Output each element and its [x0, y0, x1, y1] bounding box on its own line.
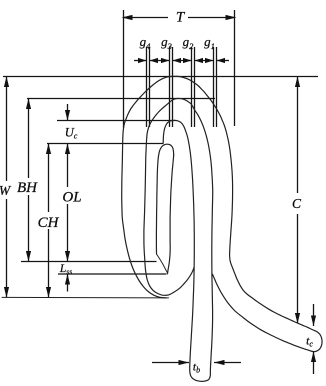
- svg-text:W: W: [0, 183, 12, 198]
- svg-text:T: T: [176, 10, 186, 26]
- svg-text:g3: g3: [161, 34, 172, 51]
- svg-text:BH: BH: [17, 180, 38, 196]
- svg-text:g1: g1: [204, 34, 215, 51]
- svg-text:CH: CH: [38, 215, 60, 231]
- svg-text:tb: tb: [193, 362, 200, 375]
- svg-text:g2: g2: [183, 34, 195, 51]
- svg-text:tc: tc: [306, 336, 313, 349]
- svg-text:C: C: [292, 196, 302, 211]
- svg-text:g4: g4: [140, 34, 152, 51]
- svg-text:OL: OL: [62, 190, 81, 206]
- svg-text:Uc: Uc: [65, 126, 78, 141]
- svg-text:Lss: Lss: [59, 263, 72, 276]
